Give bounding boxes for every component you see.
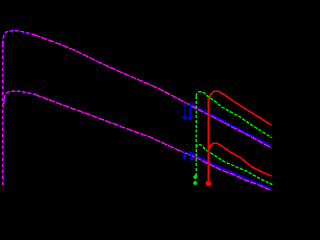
curve A rise (magenta dashes) — [2, 42, 4, 185]
blue data point 3 bottom: stem — [184, 152, 186, 157]
curve A hump (top magenta) — [3, 31, 34, 44]
green flare vertical dashed line — [195, 96, 197, 176]
curve A decay (top magenta) — [34, 35, 272, 148]
curve B decay (bottom magenta) — [35, 95, 272, 191]
blue data point 2 top: error cap — [189, 104, 192, 106]
blue data point 1 top: stem — [184, 104, 186, 118]
curve B blue under (hump) — [4, 91, 35, 104]
curve A rise (blue dashes) — [3, 42, 5, 185]
blue data point 4 bottom: dot — [190, 157, 194, 161]
blue data point 2 top: dot — [188, 117, 192, 121]
red flare top curve — [209, 91, 272, 125]
blue model line top (after break) — [189, 103, 271, 146]
green flare bottom curve (dashed) — [196, 145, 273, 185]
green start marker diamond 2 — [193, 181, 198, 186]
blue data point 1 top: error cap — [183, 103, 186, 105]
red flare vertical line — [208, 98, 210, 181]
red flare bottom curve — [209, 143, 272, 176]
curve A blue under (hump) — [3, 31, 34, 44]
green start marker diamond 1 — [193, 174, 198, 179]
blue data point 2 top: stem — [189, 105, 191, 118]
blue data point 4 bottom: stem — [190, 154, 192, 159]
green flare top curve (dashed) — [196, 92, 272, 138]
blue data point 1 top: dot — [183, 116, 187, 120]
blue data point 4 bottom: error cap — [190, 153, 193, 155]
blue model line bottom (after break) — [189, 152, 272, 189]
red start marker dot — [206, 181, 212, 187]
blue data point 3 bottom: error cap — [183, 151, 186, 153]
blue data point 3 bottom: dot — [183, 156, 187, 160]
curve B hump (bottom magenta) — [4, 91, 35, 104]
